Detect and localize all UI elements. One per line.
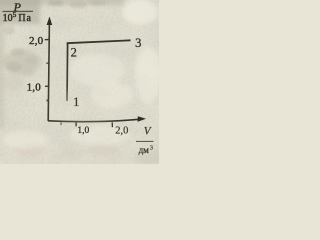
svg-text:5: 5 xyxy=(13,11,17,19)
svg-text:10: 10 xyxy=(3,13,13,24)
svg-text:1,0: 1,0 xyxy=(77,126,89,136)
svg-text:дм: дм xyxy=(139,145,150,155)
svg-text:3: 3 xyxy=(150,145,153,152)
svg-text:3: 3 xyxy=(135,36,141,50)
svg-text:2,0: 2,0 xyxy=(115,125,128,136)
svg-text:2,0: 2,0 xyxy=(29,35,44,47)
svg-text:1: 1 xyxy=(73,94,80,109)
svg-text:V: V xyxy=(144,125,152,137)
svg-text:2: 2 xyxy=(71,45,77,59)
svg-text:1,0: 1,0 xyxy=(27,81,42,93)
svg-text:Па: Па xyxy=(18,13,31,24)
